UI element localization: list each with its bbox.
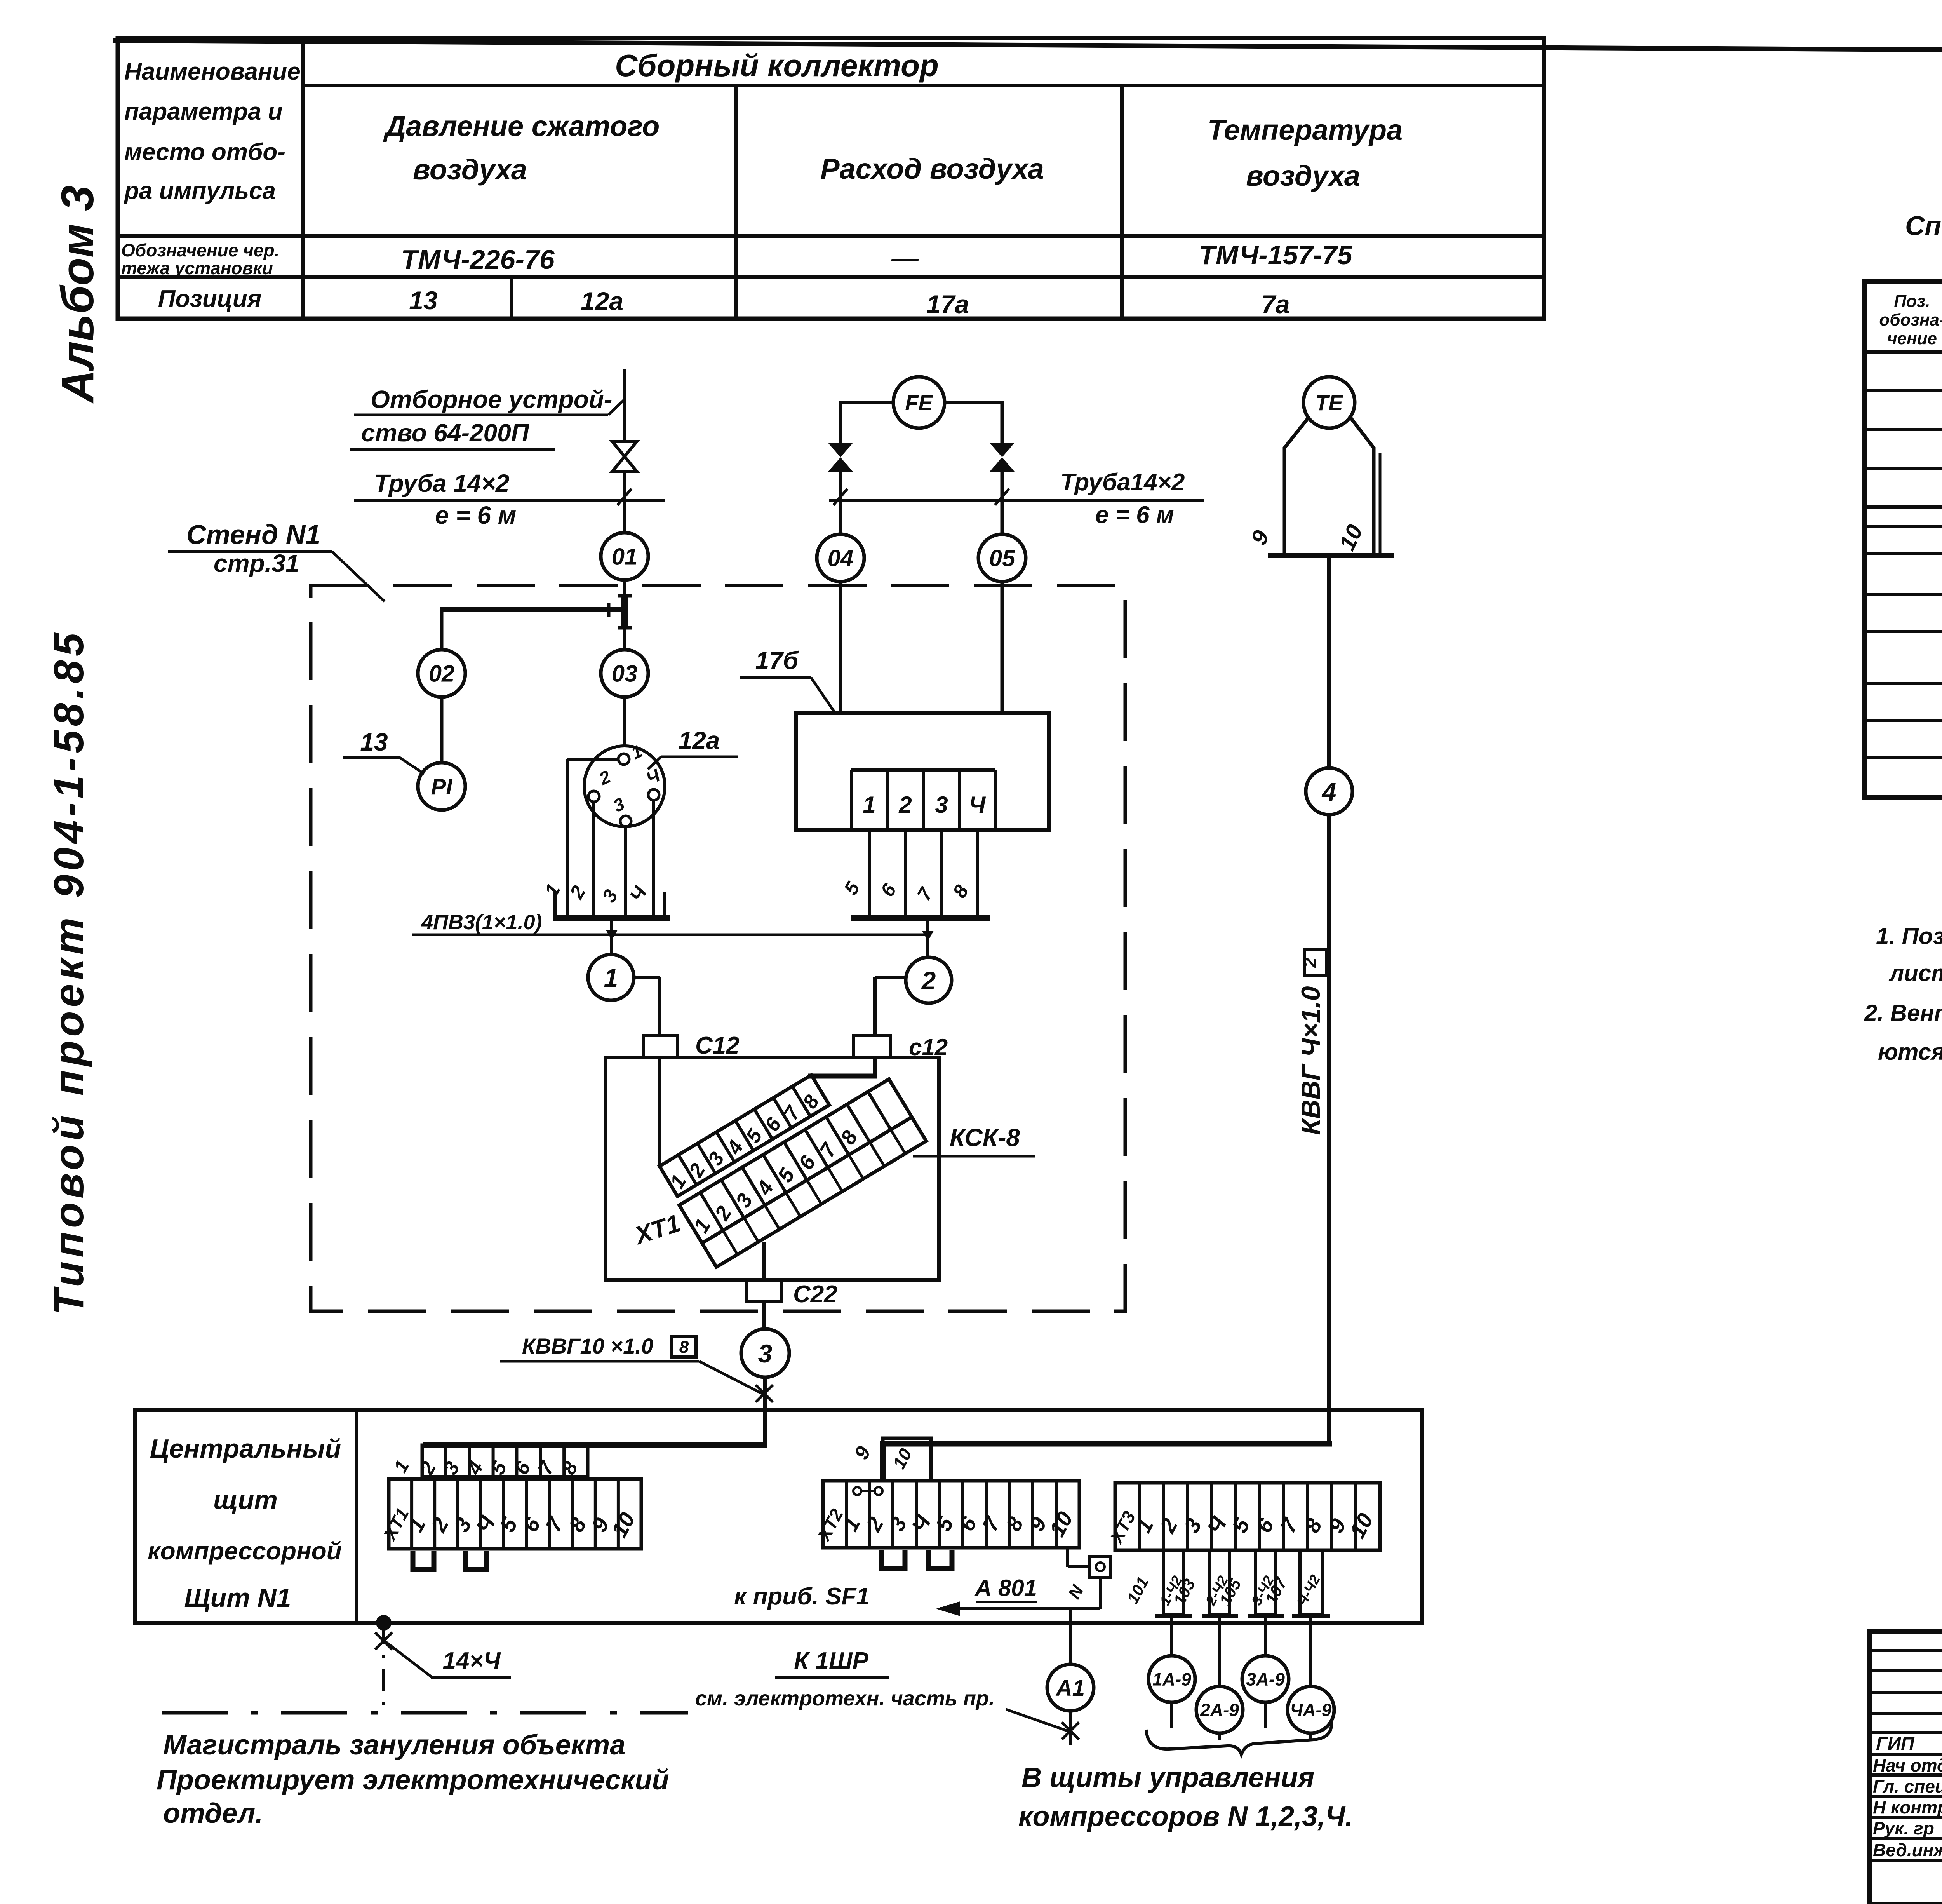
svg-text:КСК-8: КСК-8 [950,1124,1020,1151]
svg-text:е = 6 м: е = 6 м [435,501,516,529]
wire down to А1 [1069,1609,1072,1664]
svg-text:4: 4 [1321,777,1336,806]
tag 2-Ч2 under ХТ3:4 [1209,1550,1230,1615]
wire marker circle 04 [817,534,864,582]
svg-text:Гл. спец.: Гл. спец. [1873,1776,1942,1796]
svg-text:3: 3 [758,1339,773,1368]
cable marker circle 3 [741,1329,789,1377]
svg-text:12а: 12а [581,287,623,315]
wire from ХТ2:10 to lug [1066,1548,1069,1567]
svg-text:12а: 12а [679,726,720,754]
svg-text:С12: С12 [695,1032,740,1059]
cable gathering bar (12а group) [553,915,670,921]
svg-text:К 1ШР: К 1ШР [794,1648,869,1674]
pressure switch connector 12а (body) [584,746,665,827]
svg-text:А 801: А 801 [974,1575,1037,1601]
svg-text:Расход воздуха: Расход воздуха [820,153,1044,185]
TE pocket left side [1283,447,1286,556]
svg-text:к приб. SF1: к приб. SF1 [734,1583,870,1610]
wire: circle2 to с12 [875,976,907,979]
shaded valve V2 [828,443,853,457]
pin 1 of 12а [618,754,629,765]
parameter table column line x=1317 (Позиция row) [510,277,513,319]
svg-text:щит: щит [213,1485,278,1515]
valve V1 (open) on impulse pipe [612,441,637,472]
svg-text:Позиция: Позиция [158,286,261,312]
terminal strip ХТ1 lower row (panel) [389,1479,641,1549]
svg-text:лист 9: лист 9 [1888,960,1942,986]
instrument box КСК-8 [606,1057,939,1280]
wire from pin 2 [592,802,595,918]
wire: 04 to 17б [839,582,842,715]
terminal strip ХТ3 (panel) [1115,1483,1380,1550]
svg-text:ются комплектно с прибором: ются комплектно с прибором поз. 17а [1878,1039,1942,1065]
svg-text:Вед.инж: Вед.инж [1873,1840,1942,1860]
wire to ЧА-9 [1309,1616,1312,1687]
parameter table row line y=220 [303,84,1544,87]
connector С12 [643,1036,677,1057]
cable КВВГ4 from TE [1327,556,1331,768]
panel Центральный щит компрессорной [135,1410,1422,1623]
svg-text:01: 01 [612,544,638,570]
earthing conductor with crossing [382,1623,385,1713]
wire to 3А-9 [1264,1616,1267,1656]
svg-text:1: 1 [604,963,618,992]
wire marker circle 05 [978,534,1026,582]
earthing main bus (Магистраль) [162,1711,688,1715]
svg-text:ТЕ: ТЕ [1315,390,1343,415]
title block signature rows [1870,1649,1942,1652]
panel divider [355,1410,358,1623]
cable elbow to ХТ1 row [423,1442,767,1448]
wire: 03 to connector 12а [623,697,626,746]
svg-text:2. Вентили, затушеванные на: 2. Вентили, затушеванные на схеме, поста… [1864,1000,1942,1026]
wire: С12 into КСК-8 [658,1057,661,1167]
cable marker 3А-9 [1242,1656,1289,1702]
svg-text:отдел.: отдел. [163,1798,263,1829]
earthing lug (square with circle) [1090,1556,1111,1577]
spec row lines [1864,389,1942,392]
TE pocket right side (doubled) [1372,447,1376,556]
svg-text:ТМЧ-157-75: ТМЧ-157-75 [1199,240,1352,270]
svg-text:ЧА-9: ЧА-9 [1290,1700,1332,1720]
svg-text:е = 6 м: е = 6 м [1095,502,1174,528]
svg-text:1: 1 [863,792,875,818]
wire marker circle 03 [601,650,648,697]
svg-text:Магистраль зануления объекта: Магистраль зануления объекта [163,1730,625,1761]
svg-text:02: 02 [429,661,455,687]
svg-text:А1: А1 [1055,1676,1085,1701]
thermocouple TE [1303,377,1355,428]
svg-text:Н контр.: Н контр. [1873,1797,1942,1817]
tag Ч-Ч2 under ХТ3:8 [1300,1550,1322,1615]
svg-text:Труба14×2: Труба14×2 [1060,469,1185,496]
svg-text:17б: 17б [755,646,799,674]
pin 2 of 12а [588,791,599,802]
connector с12 [853,1036,891,1057]
svg-text:Альбом 3: Альбом 3 [52,185,103,404]
svg-text:В щиты управления: В щиты управления [1021,1762,1314,1793]
svg-text:Труба 14×2: Труба 14×2 [374,469,509,497]
terminal strip ХТ2 (panel) [823,1481,1079,1548]
cable marker circle 1 [588,955,634,1000]
impulse pipe from сборный коллектор [623,369,626,441]
pin 4 of 12а [648,789,659,800]
cable gathering bar (17б group) [851,915,990,921]
svg-text:Типовой проект 904-1-58.85: Типовой проект 904-1-58.85 [45,629,92,1315]
wire from pin 1 [567,758,618,761]
wire: circle1 to С12 [634,976,660,979]
wire marker circle 02 [418,650,465,697]
svg-text:чение: чение [1887,329,1937,348]
wire from pin 4 [652,800,655,918]
svg-text:1А-9: 1А-9 [1152,1669,1191,1690]
svg-text:4ПВ3(1×1.0): 4ПВ3(1×1.0) [421,911,542,934]
wire: V2 to 04 [839,472,842,534]
svg-text:ТМЧ-226-76: ТМЧ-226-76 [401,244,555,275]
parameter table row line y=608 [118,234,1544,238]
pressure gauge PI (pos 13) [418,763,465,810]
drop wire to cable 2 [926,918,929,956]
svg-text:компрессоров N 1,2,3,Ч.: компрессоров N 1,2,3,Ч. [1018,1801,1353,1832]
svg-text:воздуха: воздуха [1246,160,1360,192]
wire FE right [945,401,1004,404]
wire to 1А-9 [1170,1616,1173,1656]
wire from pin 3 [624,827,627,918]
svg-text:Давление сжатого: Давление сжатого [383,110,660,142]
connector С22 [746,1281,781,1302]
svg-text:Ч: Ч [969,792,986,818]
drop wire to cable 1 [610,918,613,955]
wire: с12 into КСК-8 [873,1057,877,1076]
TE head left slope [1284,418,1308,448]
rotated terminal strip ХТ1 (lower row) [678,1079,926,1268]
wire: strip to С22 [762,1242,766,1281]
svg-text:FE: FE [905,390,933,415]
svg-text:03: 03 [612,661,638,687]
svg-text:PI: PI [431,774,453,800]
boxed note mark 2 on cable [1304,949,1327,975]
svg-text:05: 05 [989,545,1016,571]
svg-text:КВВГ Ч×1.0: КВВГ Ч×1.0 [1296,986,1326,1135]
cable marker 2А-9 [1196,1686,1243,1733]
cable marker ЧА-9 [1288,1686,1334,1733]
pipe break ticks [834,489,847,505]
svg-text:2: 2 [898,792,912,818]
svg-text:Обозначение чер.: Обозначение чер. [121,240,279,260]
wire: С22 to cable 3 [762,1302,766,1329]
wire to приб SF1 with arrow [940,1607,1100,1610]
tag 3-Ч2 under ХТ3:6 [1255,1550,1276,1615]
terminal block of 17б [851,768,995,772]
svg-text:1. Позиции приборов указан: 1. Позиции приборов указаны согласно схе… [1876,923,1942,949]
svg-text:Щит N1: Щит N1 [184,1583,291,1613]
svg-text:Отборное устрой-: Отборное устрой- [371,385,612,413]
svg-text:Нач отд.: Нач отд. [1873,1755,1942,1775]
wire to 2А-9 [1218,1616,1221,1687]
svg-text:3: 3 [935,792,948,818]
svg-text:Температура: Температура [1208,114,1403,146]
wire marker circle 4 [1306,768,1352,815]
wire lug down [1099,1577,1102,1609]
sheet frame top border [113,40,1942,54]
svg-text:воздуха: воздуха [413,153,527,186]
rotated terminal strip ХТ1 (upper row) [658,1075,830,1198]
svg-text:04: 04 [828,545,854,571]
title block frame [1870,1631,1942,1904]
svg-text:Рук. гр: Рук. гр [1873,1818,1934,1838]
TE head right slope [1351,418,1374,448]
cable marker circle 2 [906,957,952,1003]
svg-text:обозна-: обозна- [1879,310,1942,329]
svg-text:см. электротехн. часть пр.: см. электротехн. часть пр. [695,1687,995,1710]
svg-text:Проектирует электротехничес: Проектирует электротехнический [157,1765,669,1796]
svg-text:компрессорной: компрессорной [148,1537,342,1565]
tag end bars [1155,1614,1192,1618]
svg-text:Поз.: Поз. [1894,292,1930,311]
device marker А1 [1047,1664,1094,1711]
jumper bracket under ХТ1 (1-2) [413,1551,434,1570]
svg-text:3А-9: 3А-9 [1246,1669,1285,1690]
parameter table column line x=2889 [1120,85,1124,319]
specification table frame [1864,282,1942,797]
svg-text:Спецификация к схеме соедин: Спецификация к схеме соединений [1905,211,1942,241]
parameter table column line x=780 [301,38,305,319]
wire: 02 to PI [440,697,444,763]
svg-text:ГИП: ГИП [1876,1734,1915,1754]
parameter table row line y=712 [118,275,1544,279]
svg-text:Наименование: Наименование [124,58,301,85]
wire: tee down to 03 [623,629,626,650]
parameter table column line x=1896 [734,85,738,319]
svg-text:тежа установки: тежа установки [121,258,273,278]
label Труба 14х2 е=6м (right) [829,499,1204,502]
wire stub below А1 [1069,1711,1072,1745]
brace under cables [1146,1721,1331,1754]
terminal strip ХТ1 upper row (panel) [422,1445,588,1477]
spec header row [1864,350,1942,354]
svg-text:Сборный коллектор: Сборный коллектор [615,48,939,83]
shaded valve V3 [990,443,1015,457]
wire FE left [839,401,893,404]
svg-text:КВВГ10 ×1.0: КВВГ10 ×1.0 [522,1334,653,1358]
flanged tee fitting [621,595,628,629]
svg-text:параметра и: параметра и [124,98,283,125]
crossing mark on cable [756,1385,773,1402]
cable marker 1А-9 [1148,1656,1195,1702]
svg-text:14×Ч: 14×Ч [442,1648,501,1674]
branch wire to pos 13 [440,607,621,612]
svg-text:13: 13 [360,728,388,756]
wire: valve to circle 01 [623,472,626,533]
wire marker circle 01 [601,533,648,580]
svg-text:17а: 17а [926,290,969,319]
parameter table outline [118,38,1544,319]
svg-text:8: 8 [679,1338,689,1357]
svg-text:Центральный: Центральный [150,1434,341,1463]
jumper bracket under ХТ2 (2-3) [881,1550,905,1569]
svg-text:2А-9: 2А-9 [1200,1700,1239,1720]
earthing tap node [376,1615,392,1631]
svg-text:7а: 7а [1261,290,1289,319]
jumper circles on ХТ2 terminals 1-2 [853,1487,861,1495]
wire: 05 to 17б [1001,582,1004,715]
wire: V3 to 05 [1001,472,1004,534]
svg-text:2: 2 [921,966,936,995]
tag 1-Ч2 under ХТ3:2 [1163,1550,1184,1615]
dashed enclosure Стенд N1 [311,585,1125,1311]
flow element FE [893,377,945,428]
svg-text:место отбо-: место отбо- [124,139,285,165]
pipe break tick at Труба line [618,489,632,505]
svg-text:2: 2 [1300,958,1320,968]
jumper bracket under ХТ1 (4-5) [465,1551,486,1570]
cable elbow into panel [880,1441,1332,1447]
wires from 17б terminals [868,830,871,918]
wire: 01 to tee [623,580,626,596]
cable КВВГ4 continues [1327,815,1331,1446]
TE terminal bar [1268,553,1394,558]
svg-text:стр.31: стр.31 [214,549,299,577]
svg-text:ра импульса: ра импульса [124,178,276,204]
instrument 17б body [796,713,1049,830]
svg-text:13: 13 [409,286,437,315]
svg-text:Стенд N1: Стенд N1 [186,519,320,550]
svg-text:ство 64-200П: ство 64-200П [361,419,530,447]
cell 10 (conductor) above ХТ2 [883,1438,931,1481]
pin 3 of 12а [620,816,631,827]
cable КВВГ10 down to panel [763,1377,767,1446]
jumper bracket under ХТ2 (4-5) [928,1550,952,1569]
svg-text:С22: С22 [793,1281,837,1308]
svg-text:—: — [891,243,919,273]
